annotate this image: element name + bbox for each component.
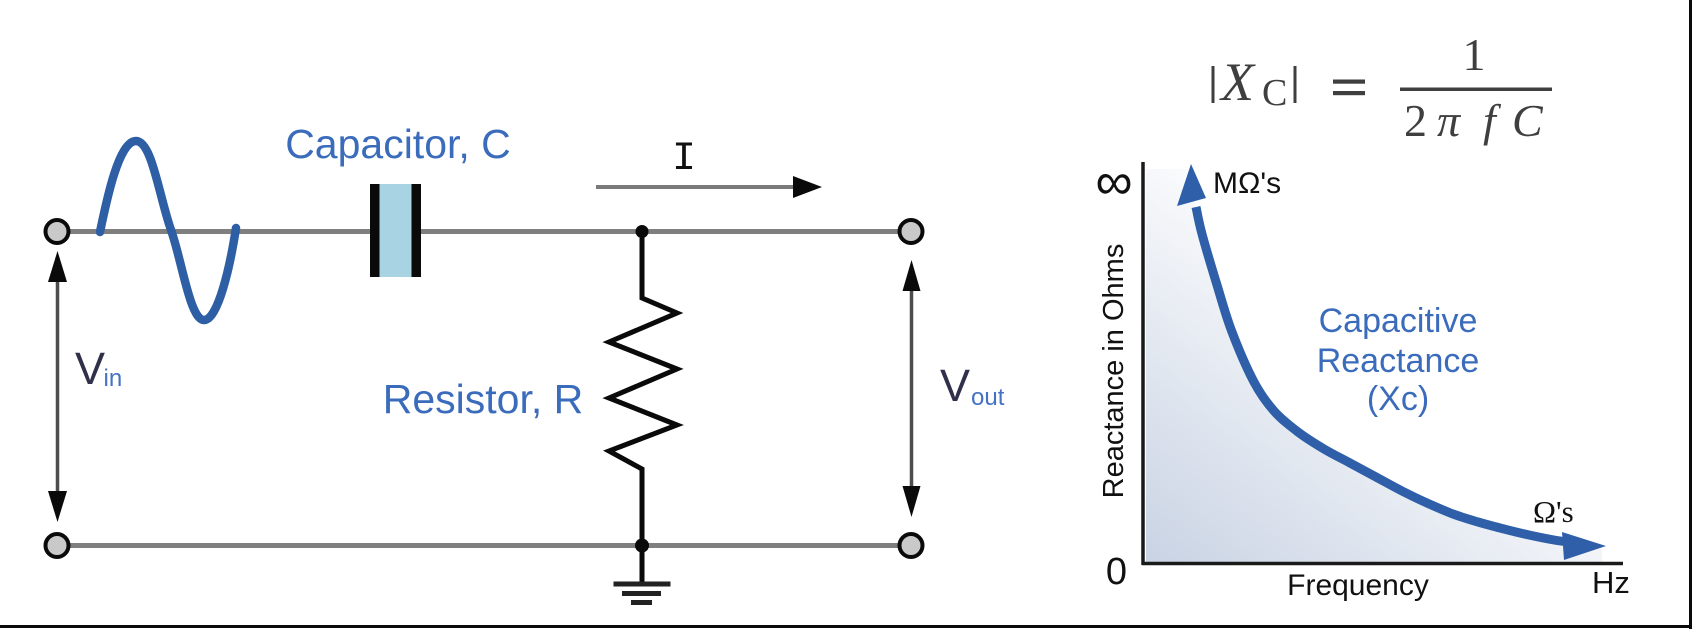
graph curve arrow head top (1177, 164, 1206, 206)
svg-text:Frequency: Frequency (1287, 569, 1429, 602)
x-axis (1142, 562, 1623, 566)
formula |Xc| (1212, 29, 1553, 146)
svg-text:π: π (1437, 95, 1462, 146)
capacitor C1 right plate (412, 184, 422, 277)
Vin arrow head down (48, 491, 67, 522)
svg-text:1: 1 (1463, 29, 1486, 80)
svg-text:∞: ∞ (1095, 153, 1132, 211)
border right (1689, 0, 1692, 629)
capacitor C1 body (370, 184, 421, 277)
node A top junction dot (636, 225, 649, 238)
current I arrow head (793, 176, 822, 198)
svg-text:C: C (1262, 72, 1287, 114)
formula fraction bar (1400, 88, 1552, 92)
svg-text:f: f (1483, 95, 1502, 146)
terminal top-left (46, 220, 69, 243)
svg-text:X: X (1219, 52, 1256, 112)
svg-text:2: 2 (1404, 95, 1427, 146)
svg-text:Reactance: Reactance (1317, 342, 1480, 380)
svg-text:Capacitive: Capacitive (1319, 302, 1478, 340)
svg-text:Hz: Hz (1592, 565, 1630, 600)
svg-text:Ω's: Ω's (1533, 494, 1574, 529)
graph gradient fill under curve (1146, 169, 1602, 562)
wire bottom rail (68, 543, 900, 548)
svg-text:Reactance in Ohms: Reactance in Ohms (1098, 244, 1130, 499)
svg-text:V: V (940, 360, 970, 411)
Vout arrow head up (903, 260, 921, 291)
graph curve arrow head right (1562, 532, 1606, 560)
ground bar 2 (622, 591, 661, 596)
svg-text:Capacitor, C: Capacitor, C (285, 121, 511, 167)
Vin arrow shaft (56, 272, 60, 502)
svg-text:I: I (672, 137, 696, 182)
resistor R1 zigzag (609, 232, 677, 546)
border bottom (0, 625, 1692, 628)
formula equals (1333, 80, 1365, 84)
terminal bottom-left (46, 534, 69, 557)
current I arrow shaft (596, 185, 798, 189)
svg-text:V: V (75, 343, 105, 394)
Vout arrow shaft (910, 281, 914, 496)
capacitor C1 left plate (370, 184, 380, 277)
terminal bottom-right (900, 534, 923, 557)
wire top rail (68, 229, 900, 234)
graph curve Xc (1196, 207, 1582, 544)
node B bottom junction dot (635, 539, 649, 553)
svg-text:(Xc): (Xc) (1367, 380, 1429, 418)
terminal top-right (900, 220, 923, 243)
ground bar 1 (614, 582, 671, 587)
svg-text:0: 0 (1106, 551, 1127, 593)
svg-text:Resistor, R: Resistor, R (383, 376, 584, 422)
svg-text:C: C (1512, 95, 1544, 146)
svg-text:MΩ's: MΩ's (1213, 167, 1281, 200)
svg-text:out: out (971, 384, 1005, 411)
ground stem (640, 546, 645, 584)
Vout arrow head down (903, 486, 921, 517)
ground bar 3 (631, 600, 652, 605)
svg-text:in: in (104, 365, 123, 392)
y-axis (1141, 162, 1145, 565)
AC source sine wave (100, 141, 236, 320)
Vin arrow head up (48, 251, 67, 282)
